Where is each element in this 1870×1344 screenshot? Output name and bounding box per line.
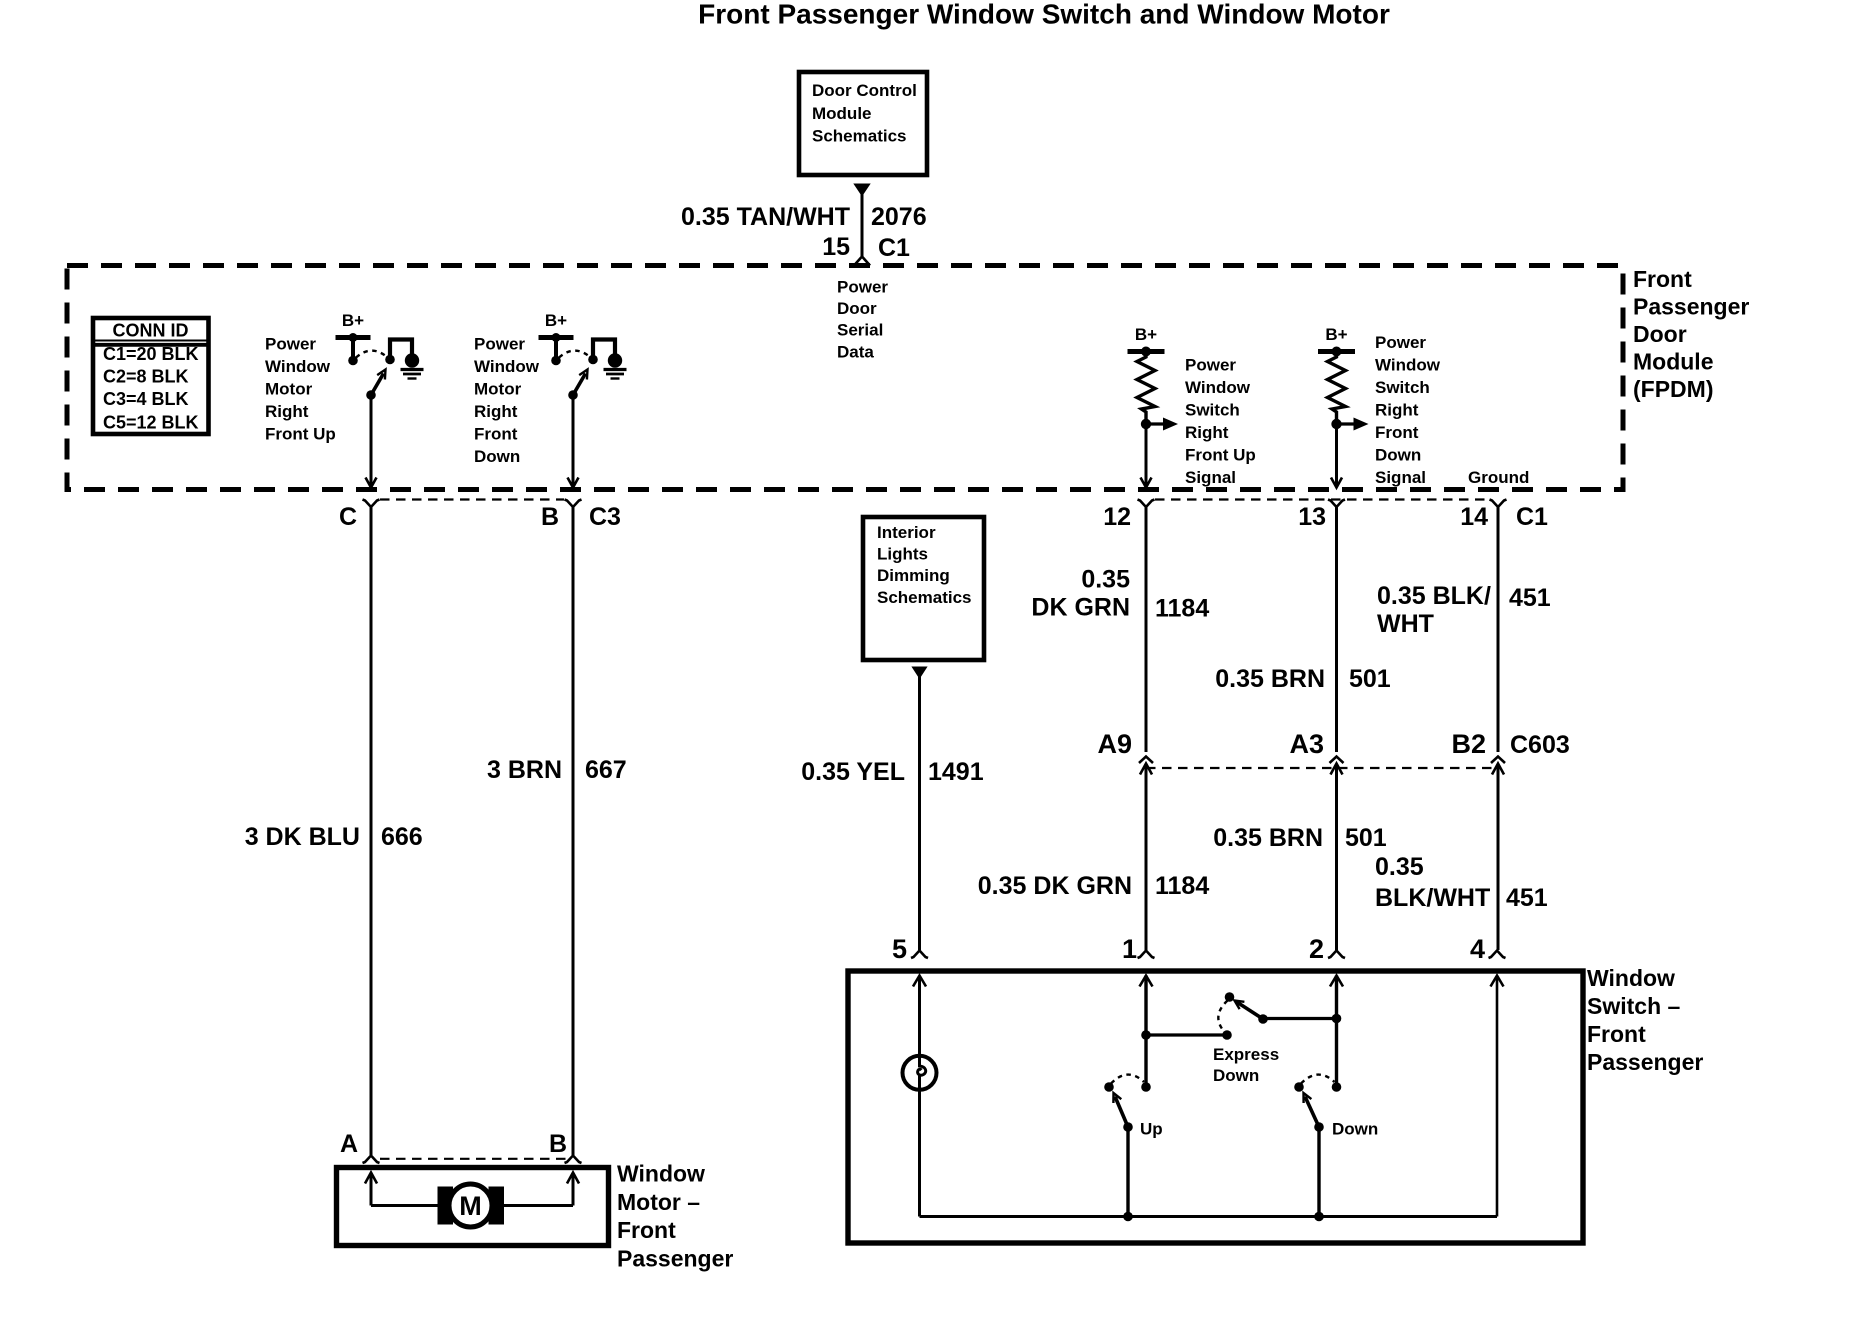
- resistor R1: signal tap junction and arrow: [1141, 418, 1178, 431]
- resistor R1: B+ label: [1135, 325, 1157, 344]
- svg-text:Signal: Signal: [1375, 468, 1426, 487]
- svg-text:Schematics: Schematics: [812, 127, 907, 146]
- wire 501 upper: 0.35 BRN, pin 13 to C603 A3: [1335, 507, 1338, 752]
- driver K1 (motor up): B+ label: [342, 311, 364, 330]
- svg-text:Right: Right: [474, 402, 518, 421]
- label: Express Down: [1213, 1045, 1279, 1085]
- svg-text:BLK/WHT: BLK/WHT: [1375, 884, 1490, 912]
- wire 451 upper: 0.35 BLK/WHT, pin 14 to C603 B2: [1497, 507, 1500, 752]
- svg-text:14: 14: [1460, 503, 1488, 531]
- resistor R2: description label: [1375, 333, 1441, 487]
- wire: express-down stationary feed: [1146, 1030, 1232, 1040]
- svg-text:2076: 2076: [871, 203, 927, 231]
- svg-text:501: 501: [1345, 824, 1387, 852]
- svg-text:A: A: [340, 1130, 358, 1158]
- svg-text:C1=20 BLK: C1=20 BLK: [103, 344, 199, 364]
- connector C603 pin A3: [1289, 729, 1343, 775]
- driver K2 (motor down): description label: [474, 334, 540, 466]
- svg-text:Front Up: Front Up: [1185, 445, 1256, 464]
- svg-text:0.35: 0.35: [1375, 853, 1424, 881]
- svg-text:1184: 1184: [1155, 595, 1209, 623]
- svg-text:Window: Window: [265, 357, 331, 376]
- connector C1 pin 14: [1460, 500, 1548, 532]
- svg-text:Front Passenger Window Switch: Front Passenger Window Switch and Window…: [698, 0, 1390, 30]
- resistor R1: description label: [1185, 355, 1256, 487]
- resistor R1: pull-up resistor zigzag: [1137, 351, 1155, 424]
- down switch: travel arc (dashed): [1301, 1075, 1335, 1084]
- svg-text:C: C: [339, 503, 357, 531]
- svg-text:4: 4: [1470, 934, 1485, 964]
- svg-text:451: 451: [1509, 584, 1551, 612]
- label: wire 0.35 TAN/WHT circuit 2076: [681, 203, 927, 231]
- svg-text:Module: Module: [1633, 349, 1714, 375]
- wire: pin 1 to up-switch contact: [1144, 976, 1147, 1088]
- svg-text:1184: 1184: [1155, 872, 1209, 900]
- driver K1 (motor up): output wire to connector with arrow: [366, 395, 377, 488]
- svg-text:C1: C1: [878, 234, 910, 262]
- resistor R2: wire to connector with arrow: [1331, 424, 1342, 488]
- component box: Window Switch - Front Passenger: [848, 971, 1583, 1243]
- driver K1 (motor up): ground-side stationary contact: [385, 355, 395, 365]
- resistor R2: B+ label: [1325, 325, 1347, 344]
- svg-text:Power: Power: [1375, 333, 1426, 352]
- node: express-down branch on wire 1: [1141, 1030, 1151, 1040]
- wire 666: 3 DK BLU, pin C to motor pin A: [370, 507, 373, 1155]
- svg-text:Interior: Interior: [877, 523, 936, 542]
- switch common / ground bus wire: [920, 976, 1498, 1217]
- svg-text:0.35 BLK/: 0.35 BLK/: [1377, 582, 1491, 610]
- svg-text:3 BRN: 3 BRN: [487, 756, 562, 784]
- driver K2 (motor down): output wire to connector with arrow: [568, 395, 579, 488]
- resistor R2: signal tap junction and arrow: [1331, 418, 1368, 431]
- driver K2 (motor down): B+ label: [545, 311, 567, 330]
- label: pin 15, connector C1: [822, 233, 910, 262]
- switch pin 1 connector: [1122, 934, 1155, 987]
- svg-text:Passenger: Passenger: [1633, 293, 1749, 319]
- svg-text:Motor: Motor: [474, 379, 522, 398]
- svg-text:Switch –: Switch –: [1587, 993, 1681, 1019]
- driver K1 (motor up): B+ supply bar: [336, 335, 371, 340]
- svg-text:Front: Front: [1587, 1021, 1646, 1047]
- label: 0.35 DK GRN 1184 (lower): [978, 872, 1210, 900]
- resistor R2: pull-up resistor zigzag: [1328, 351, 1346, 424]
- svg-text:Front Up: Front Up: [265, 424, 336, 443]
- driver K1 (motor up): movable contact arm with arrow: [366, 370, 385, 400]
- wire: pin B into motor: [503, 1173, 579, 1206]
- wire 1184 lower: 0.35 DK GRN, C603 A9 to switch pin 1: [1145, 764, 1148, 951]
- down switch: stationary contacts: [1294, 1082, 1341, 1092]
- diagram title: [698, 0, 1390, 30]
- svg-text:Ground: Ground: [1468, 468, 1529, 487]
- svg-text:15: 15: [822, 233, 850, 261]
- resistor R2: B+ supply bar: [1318, 347, 1355, 357]
- label: 0.35 DK GRN 1184 (upper): [1031, 566, 1209, 623]
- svg-text:Motor –: Motor –: [617, 1189, 700, 1215]
- switch pin 4 connector: [1470, 934, 1506, 987]
- svg-text:0.35 BRN: 0.35 BRN: [1215, 665, 1325, 693]
- svg-text:Door: Door: [1633, 321, 1687, 347]
- module outline: Front Passenger Door Module (dashed): [67, 266, 1623, 490]
- svg-text:M: M: [459, 1191, 482, 1221]
- label: connector C603: [1510, 731, 1570, 759]
- svg-text:Up: Up: [1140, 1119, 1163, 1138]
- svg-text:Window: Window: [1375, 355, 1441, 374]
- driver K1 (motor up): description label: [265, 334, 336, 443]
- label: 0.35 YEL 1491: [801, 758, 983, 786]
- svg-text:B+: B+: [1135, 325, 1157, 344]
- motor M1: armature circle: [449, 1184, 492, 1227]
- svg-text:667: 667: [585, 756, 627, 784]
- svg-text:Power: Power: [837, 278, 888, 297]
- connector C1 pin 13: [1298, 500, 1345, 532]
- svg-text:2: 2: [1309, 934, 1324, 964]
- express-down switch travel arc (dashed): [1218, 1001, 1227, 1033]
- svg-text:Data: Data: [837, 342, 874, 361]
- svg-text:Right: Right: [1185, 423, 1229, 442]
- svg-text:Down: Down: [474, 447, 520, 466]
- switch pin 5 connector: [892, 934, 928, 987]
- switch pin 2 connector: [1309, 934, 1345, 987]
- svg-text:B2: B2: [1451, 729, 1486, 759]
- label: Front Passenger Door Module (FPDM): [1633, 266, 1749, 402]
- svg-text:13: 13: [1298, 503, 1326, 531]
- express-down switch arm: [1225, 992, 1268, 1024]
- svg-text:1: 1: [1122, 934, 1137, 964]
- label: Power Door Serial Data: [837, 278, 888, 362]
- label: 0.35 BRN 501 (upper): [1215, 665, 1391, 693]
- svg-text:Down: Down: [1375, 445, 1421, 464]
- svg-text:0.35: 0.35: [1081, 566, 1130, 594]
- svg-text:0.35 YEL: 0.35 YEL: [801, 758, 905, 786]
- svg-text:C3=4 BLK: C3=4 BLK: [103, 389, 189, 409]
- connector C603 pin B2: [1451, 729, 1505, 775]
- svg-text:C2=8 BLK: C2=8 BLK: [103, 367, 189, 387]
- label: 3 BRN 667: [487, 756, 627, 784]
- connector C3 tie line (dashed): [380, 498, 564, 500]
- component box: Window Motor - Front Passenger: [337, 1168, 609, 1246]
- svg-text:A3: A3: [1289, 729, 1324, 759]
- connector C603 pin A9: [1097, 729, 1153, 775]
- svg-text:Right: Right: [265, 402, 309, 421]
- label: 3 DK BLU 666: [245, 823, 423, 851]
- wire: express-down arm to wire 2: [1263, 1014, 1341, 1024]
- svg-text:Module: Module: [812, 104, 872, 123]
- resistor R1: wire to connector with arrow: [1141, 424, 1152, 488]
- svg-text:B: B: [541, 503, 559, 531]
- wire 667: 3 BRN, pin B to motor pin B: [572, 507, 575, 1155]
- svg-text:B+: B+: [342, 311, 364, 330]
- motor M1: brushes: [438, 1187, 505, 1225]
- label: Window Switch - Front Passenger: [1587, 965, 1703, 1075]
- connector C1 pin 12: [1103, 500, 1154, 532]
- driver K1 (motor up): bracket wire to ground: [390, 340, 412, 360]
- resistor R1: B+ supply bar: [1128, 347, 1165, 357]
- label: Ground (pin 14): [1468, 468, 1529, 487]
- svg-text:Schematics: Schematics: [877, 588, 972, 607]
- svg-text:A9: A9: [1097, 729, 1132, 759]
- driver K1 (motor up): travel arc (dashed): [356, 351, 387, 358]
- svg-text:Window: Window: [1587, 965, 1675, 991]
- up switch: arm with arrow: [1113, 1093, 1132, 1132]
- svg-text:Power: Power: [265, 334, 316, 353]
- driver K2 (motor down): B+ stationary contact stub: [551, 333, 561, 365]
- svg-text:0.35 BRN: 0.35 BRN: [1213, 824, 1323, 852]
- svg-text:Window: Window: [1185, 378, 1251, 397]
- svg-text:Signal: Signal: [1185, 468, 1236, 487]
- svg-text:C3: C3: [589, 503, 621, 531]
- driver K2 (motor down): movable contact arm with arrow: [568, 370, 587, 400]
- wire 1184 upper: 0.35 DK GRN, pin 12 to C603 A9: [1145, 507, 1148, 752]
- svg-text:3 DK BLU: 3 DK BLU: [245, 823, 360, 851]
- driver K2 (motor down): ground symbol: [604, 353, 627, 378]
- wire 451 lower: 0.35 BLK/WHT, C603 B2 to switch pin 4: [1497, 764, 1500, 951]
- svg-text:666: 666: [381, 823, 423, 851]
- connector chevron at FPDM pin 15: [854, 257, 870, 266]
- svg-text:B: B: [549, 1130, 567, 1158]
- svg-text:C1: C1: [1516, 503, 1548, 531]
- svg-text:Lights: Lights: [877, 545, 928, 564]
- svg-text:C5=12 BLK: C5=12 BLK: [103, 412, 199, 432]
- wire: serial data from Door Control Module, triangle tail: [853, 184, 870, 257]
- svg-text:Passenger: Passenger: [617, 1246, 733, 1272]
- label: Window Motor - Front Passenger: [617, 1160, 733, 1271]
- label: 0.35 BRN 501 (lower): [1213, 824, 1387, 852]
- up switch: stationary contacts: [1104, 1082, 1151, 1092]
- label: 0.35 BLK/WHT 451 (upper): [1377, 582, 1551, 638]
- motor connector tie line (dashed): [380, 1158, 566, 1160]
- connector C3 pin C: [339, 500, 380, 532]
- box: Interior Lights Dimming Schematics: [863, 517, 984, 660]
- svg-text:12: 12: [1103, 503, 1131, 531]
- svg-text:Down: Down: [1213, 1066, 1259, 1085]
- up switch: travel arc (dashed): [1111, 1075, 1144, 1084]
- svg-text:DK GRN: DK GRN: [1031, 594, 1130, 622]
- svg-text:Front: Front: [474, 424, 518, 443]
- down switch: arm to ground bus: [1314, 1127, 1324, 1221]
- svg-text:Power: Power: [474, 334, 525, 353]
- driver K2 (motor down): ground-side stationary contact: [588, 355, 598, 365]
- driver K2 (motor down): bracket wire to ground: [593, 340, 615, 360]
- svg-text:Window: Window: [617, 1160, 705, 1186]
- wire 501 lower: 0.35 BRN, C603 A3 to switch pin 2: [1335, 764, 1338, 951]
- svg-text:0.35 TAN/WHT: 0.35 TAN/WHT: [681, 203, 850, 231]
- svg-text:0.35 DK GRN: 0.35 DK GRN: [978, 872, 1132, 900]
- connector C3 pin B: [541, 500, 621, 532]
- svg-text:1491: 1491: [928, 758, 984, 786]
- box: Door Control Module Schematics: [799, 72, 927, 175]
- svg-text:Motor: Motor: [265, 379, 313, 398]
- svg-text:C603: C603: [1510, 731, 1570, 759]
- svg-text:CONN ID: CONN ID: [113, 321, 189, 341]
- svg-text:Passenger: Passenger: [1587, 1049, 1703, 1075]
- svg-text:Switch: Switch: [1185, 400, 1240, 419]
- svg-text:Down: Down: [1332, 1119, 1378, 1138]
- wire: pin 2 to down-switch contact: [1335, 976, 1338, 1088]
- svg-text:Dimming: Dimming: [877, 566, 950, 585]
- svg-text:(FPDM): (FPDM): [1633, 376, 1713, 402]
- label: Up: [1140, 1119, 1163, 1138]
- wire 1491: 0.35 YEL, dimming feed to switch pin 5: [911, 667, 927, 951]
- svg-text:Front: Front: [1375, 423, 1419, 442]
- svg-text:WHT: WHT: [1377, 610, 1434, 638]
- motor connector pin A: [340, 1130, 380, 1163]
- label: Down: [1332, 1119, 1378, 1138]
- svg-text:Power: Power: [1185, 355, 1236, 374]
- driver K2 (motor down): B+ supply bar: [539, 335, 574, 340]
- svg-text:Front: Front: [617, 1217, 676, 1243]
- svg-text:5: 5: [892, 934, 907, 964]
- driver K1 (motor up): B+ stationary contact stub: [348, 333, 358, 365]
- svg-text:Express: Express: [1213, 1045, 1279, 1064]
- connector C1 tie line (dashed): [1155, 498, 1489, 500]
- label: 0.35 BLK/WHT 451 (lower): [1375, 853, 1548, 912]
- driver K2 (motor down): travel arc (dashed): [559, 351, 590, 358]
- svg-text:Door: Door: [837, 299, 877, 318]
- svg-text:Serial: Serial: [837, 321, 883, 340]
- table: CONN ID: [93, 318, 209, 434]
- illumination lamp: [903, 976, 937, 1217]
- svg-text:Switch: Switch: [1375, 378, 1430, 397]
- up switch: arm to ground bus: [1123, 1127, 1133, 1221]
- svg-text:Window: Window: [474, 357, 540, 376]
- down switch: arm with arrow: [1304, 1093, 1324, 1132]
- connector C603 tie line (dashed): [1146, 767, 1498, 769]
- driver K1 (motor up): ground symbol: [401, 353, 424, 378]
- svg-text:B+: B+: [1325, 325, 1347, 344]
- svg-text:501: 501: [1349, 665, 1391, 693]
- svg-text:Door Control: Door Control: [812, 81, 917, 100]
- svg-text:B+: B+: [545, 311, 567, 330]
- svg-text:Right: Right: [1375, 400, 1419, 419]
- svg-text:Front: Front: [1633, 266, 1692, 292]
- svg-text:451: 451: [1506, 884, 1548, 912]
- wire: pin A into motor: [365, 1173, 438, 1206]
- motor connector pin B: [549, 1130, 582, 1163]
